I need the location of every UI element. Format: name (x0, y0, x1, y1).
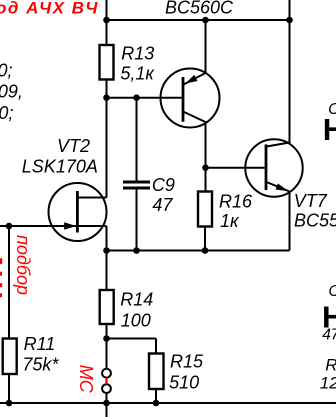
wire VT2 gate from left edge (0, 225, 77, 227)
VT7 collector diagonal (267, 143, 290, 147)
svg-text:0;: 0; (0, 103, 13, 123)
connector pin MC upper (102, 369, 111, 378)
junction node VT2 gate / R11 (6, 223, 13, 230)
wire branch to R15 (107, 338, 157, 340)
svg-text:12: 12 (320, 374, 336, 393)
connector pin MC lower (102, 384, 111, 393)
svg-text:47: 47 (322, 327, 336, 344)
svg-text:VT2: VT2 (57, 136, 90, 156)
red jumper link between MC pins (105, 378, 107, 384)
resistor R13 body (100, 45, 114, 80)
wire R13 bottom to VT2 drain corner (106, 80, 108, 198)
svg-text:47: 47 (152, 195, 173, 215)
junction node R13 bottom / U1 base (103, 94, 110, 101)
VT2 gate arrow (64, 222, 76, 229)
junction node VT2 source / mid rail (103, 247, 110, 254)
wire VT7 emitter down (289, 192, 291, 251)
svg-text:BC560C: BC560C (165, 0, 234, 17)
wire emitter of BC560C to top rail (205, 20, 207, 73)
svg-text:од АЧХ ВЧ: од АЧХ ВЧ (0, 0, 99, 18)
wire R11 bottom lead (8, 374, 10, 403)
svg-text:09,: 09, (0, 82, 23, 102)
wire node under R13 to base of BC560C (107, 97, 182, 99)
junction node R14 bottom / R15 branch (103, 335, 110, 342)
junction node top rail / VT7 collector (286, 17, 293, 24)
junction node under R13 top rail left (103, 17, 110, 24)
svg-text:BC550C: BC550C (294, 210, 336, 230)
svg-text:МС: МС (76, 365, 96, 394)
junction node MC / bottom rail (103, 400, 110, 407)
junction node R16 bottom / mid rail (202, 247, 209, 254)
wire R14 bottom to MC pin (106, 324, 108, 369)
wire VT2 drain lead (78, 197, 107, 199)
wire top supply rail (107, 19, 290, 21)
junction node C9 top (133, 94, 140, 101)
U1 emitter arrow (points into base, PNP) (185, 75, 197, 84)
VT7 emitter diagonal (267, 182, 290, 192)
wire vertical bus from top edge to R13 (106, 0, 108, 45)
svg-text:Н: Н (323, 112, 336, 147)
wire R16 bottom lead (204, 227, 206, 251)
resistor R11 body (3, 339, 17, 375)
svg-text:R1: R1 (325, 355, 336, 374)
svg-text:100: 100 (121, 310, 151, 330)
svg-text:1к: 1к (220, 211, 240, 231)
resistor R14 body (100, 290, 114, 324)
VT7 base bar (265, 144, 268, 190)
VT7 emitter arrow (points outward, NPN) (276, 184, 289, 192)
transistor VT2 LSK170A (N-JFET) (49, 183, 107, 241)
transistor U1 BC560C (PNP) (161, 69, 220, 128)
svg-text:5,1к: 5,1к (120, 63, 155, 83)
wire bottom ground rail (0, 402, 336, 404)
wire VT7 collector up to top edge (289, 0, 291, 144)
transistor VT7 BC550C (NPN) (245, 139, 302, 196)
label red fragment letters at left edge (cut) (0, 258, 2, 297)
svg-text:510: 510 (169, 373, 199, 393)
svg-text:R13: R13 (121, 43, 154, 63)
svg-text:R11: R11 (24, 334, 56, 354)
wire collector of BC560C down to R16 node (205, 123, 207, 192)
wire C9 bottom lead (136, 190, 138, 251)
svg-text:LSK170A: LSK170A (22, 157, 98, 177)
svg-text:VT7: VT7 (294, 191, 328, 211)
svg-text:R14: R14 (120, 290, 153, 310)
junction node U1 collector / VT7 base / R16 (202, 164, 209, 171)
junction node R11 / bottom rail (6, 400, 13, 407)
wire middle rail (VT2 source / C9 / R16 / VT7 emitter) (107, 250, 290, 252)
junction node top rail / U1 emitter (202, 17, 209, 24)
VT2 channel bar (76, 191, 79, 233)
VT7 body circle (245, 139, 302, 196)
svg-text:C: C (328, 283, 336, 300)
U1 emitter diagonal (184, 73, 206, 84)
wire R15 top lead (155, 339, 157, 354)
wire VT7 base (206, 167, 265, 169)
U1 collector diagonal (184, 112, 207, 123)
wire R15 bottom lead (155, 389, 157, 403)
U1 base bar (182, 77, 185, 122)
capacitor C9 plates (123, 182, 150, 188)
svg-text:подбор: подбор (13, 235, 33, 295)
svg-text:0;: 0; (0, 60, 13, 80)
VT2 body circle (49, 183, 107, 241)
wire C9 top lead (136, 98, 138, 181)
wire MC pin to bottom rail and below edge (106, 393, 108, 417)
junction node R15 / bottom rail (153, 400, 160, 407)
junction node C9 bottom / mid rail (133, 247, 140, 254)
wire left branch down to R11 (8, 226, 10, 339)
wire VT2 source lead (78, 225, 107, 227)
U1 body circle (161, 69, 220, 128)
wire R14 top lead (106, 251, 108, 291)
resistor R15 body (149, 354, 164, 390)
svg-text:R16: R16 (219, 191, 253, 211)
svg-text:R15: R15 (170, 351, 204, 371)
svg-text:75k*: 75k* (22, 354, 59, 374)
resistor R16 body (198, 192, 212, 227)
wire VT2 source corner down (106, 226, 108, 251)
svg-text:C9: C9 (152, 175, 175, 195)
